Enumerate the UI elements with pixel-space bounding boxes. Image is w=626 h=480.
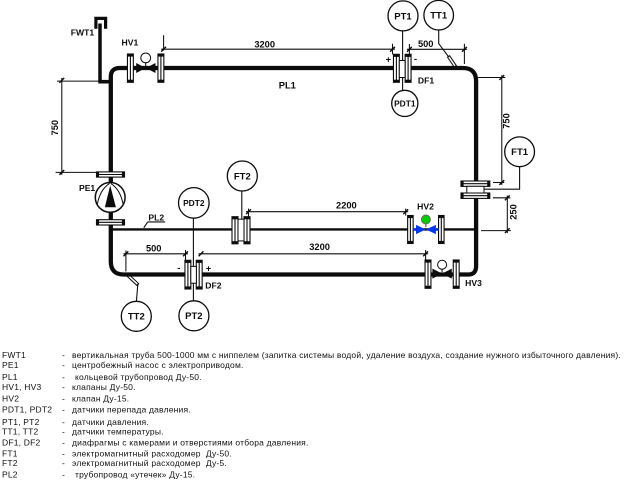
svg-text:-: - [62,458,65,468]
svg-text:PL1: PL1 [2,372,18,382]
dim 3200 top ext left [163,35,165,50]
svg-text:-: - [177,263,180,273]
valve HV2 actuator green circle [421,215,430,224]
legend row HV2 [2,393,129,403]
dim 250 ext top [493,197,510,199]
pump PE1 side arcs [97,183,123,204]
valve HV2 left flange [408,216,414,244]
diaphragm DF2 left flange [185,260,191,289]
sensor circle TT2 [121,301,151,331]
diaphragm DF1 chamber body [399,61,405,78]
valve HV1 actuator stem [145,63,147,67]
svg-text:PT1: PT1 [394,11,412,22]
node PDT1 stem [402,77,404,90]
valve HV1 left flange [127,54,133,82]
svg-text:TT1, TT2: TT1, TT2 [2,427,38,437]
svg-text:DF1: DF1 [418,75,434,85]
valve HV2 blue stubs [413,228,438,231]
svg-text:-: - [62,405,65,415]
dim 750 right ext top [478,77,506,79]
valve HV2 body blue [416,225,436,234]
svg-text:+: + [386,55,392,65]
pump PE1 impeller triangle [105,185,116,207]
svg-text:-: - [62,360,65,370]
svg-text:датчики перепада давления.: датчики перепада давления. [72,405,191,415]
svg-text:PT1, PT2: PT1, PT2 [2,417,40,427]
svg-text:-: - [414,54,417,64]
svg-text:+: + [206,263,212,273]
valve HV3 body [432,269,451,279]
svg-text:-: - [62,417,65,427]
flowmeter FT2 right flange [244,217,250,244]
svg-text:3200: 3200 [309,242,330,252]
sensor circle TT1 [424,0,454,30]
dim 500 top line [407,48,467,50]
thermowell probe TT1 [448,56,455,67]
svg-text:2200: 2200 [336,201,357,211]
svg-text:трубопровод «утечек» Ду-15.: трубопровод «утечек» Ду-15. [75,469,195,479]
sensor circle PDT1 [392,90,418,116]
svg-text:FT1: FT1 [2,448,18,458]
valve HV1 right flange [158,54,164,82]
node TT2 leader [136,284,137,301]
sensor circle PT1 [388,1,418,31]
svg-text:FWT1: FWT1 [71,28,95,38]
dim 500 top ext right [463,44,465,64]
svg-text:250: 250 [509,204,519,220]
dim 750 left ext bottom [56,171,97,173]
flowmeter FT1 bottom flange [461,193,490,198]
svg-text:HV2: HV2 [2,393,19,403]
svg-text:PL2: PL2 [148,213,164,223]
diaphragm DF1 left flange [393,54,399,82]
legend row DF1 DF2 [2,438,309,448]
legend row FWT1 [2,350,621,360]
node FT1 leader [484,167,520,189]
node PT2 stem [192,283,194,301]
dim 3200 top ext right [392,44,394,55]
svg-text:PL2: PL2 [2,469,18,479]
flowmeter FT1 top flange [461,181,490,186]
legend row PE1 [2,360,244,370]
pump PE1 bottom flange [97,220,125,225]
svg-text:PDT2: PDT2 [183,198,205,208]
pump PE1 top flange [97,172,125,177]
svg-text:750: 750 [50,120,60,136]
dim 750 left line [61,78,63,175]
dim 250 line [506,196,508,234]
legend row FT1 [2,448,232,458]
tube FWT1 jog to main pipe [98,80,111,84]
svg-text:PDT1: PDT1 [394,98,416,108]
valve HV3 actuator stem [441,269,443,272]
svg-text:HV1, HV3: HV1, HV3 [2,382,41,392]
instrument stems layer [136,30,519,302]
svg-text:DF2: DF2 [205,280,221,290]
svg-text:HV1: HV1 [122,37,139,47]
sensor circle PT2 [179,301,209,331]
svg-text:PE1: PE1 [79,183,95,193]
dimension lines layer [56,35,511,271]
dim 500 bottom line [123,253,188,255]
dim 500 bottom ext right [185,250,187,260]
legend row PL1 [2,372,202,382]
svg-text:FWT1: FWT1 [2,350,26,360]
vertical tube FWT1 pipe [98,24,102,82]
svg-text:PDT1, PDT2: PDT1, PDT2 [2,405,52,415]
svg-text:кольцевой трубопровод Ду-50.: кольцевой трубопровод Ду-50. [75,372,202,382]
label PL2 with underline and leader [144,213,165,228]
valve HV3 left flange [425,260,431,288]
svg-text:-: - [62,350,65,360]
svg-text:FT2: FT2 [2,458,18,468]
legend row HV1 HV3 [2,382,136,392]
valve HV1 actuator circle [141,53,151,63]
svg-text:FT1: FT1 [511,147,529,158]
svg-text:клапан Ду-15.: клапан Ду-15. [72,393,129,403]
svg-text:PL1: PL1 [279,79,296,90]
svg-text:-: - [62,427,65,437]
dim 500 bottom ext left [125,250,127,271]
svg-text:PT2: PT2 [185,311,202,322]
svg-text:3200: 3200 [254,39,275,49]
pump PE1 circle [95,183,125,213]
svg-text:-: - [62,438,65,448]
dim 250 ext bottom [481,230,511,232]
node PDT2 stem [192,218,194,266]
legend row PDT1 PDT2 [2,405,191,415]
legend row PT1 PT2 [2,417,149,427]
thermowell probe TT2 [126,274,138,285]
svg-text:500: 500 [418,39,434,49]
dim 3200 bottom line [199,253,429,255]
svg-text:-: - [62,393,65,403]
svg-text:750: 750 [502,113,512,129]
svg-text:датчики температуры.: датчики температуры. [72,427,164,437]
svg-text:электромагнитный расходомер Д: электромагнитный расходомер Ду-50. [72,448,232,458]
legend row TT1 TT2 [2,427,164,437]
diaphragm DF2 right flange [196,260,202,289]
svg-text:DF1, DF2: DF1, DF2 [2,438,41,448]
svg-text:центробежный насос с электропр: центробежный насос с электроприводом. [72,360,244,370]
dim 2200 ext left [248,209,250,217]
dim 2200 ext right [405,209,407,216]
valve HV2 actuator stem [425,224,427,227]
node FT2 stem [241,191,243,220]
sensor circle PDT2 [179,188,210,219]
svg-text:TT1: TT1 [430,11,448,22]
svg-text:TT2: TT2 [128,312,145,323]
dim 2200 line [246,211,408,213]
svg-text:клапаны Ду-50.: клапаны Ду-50. [72,382,136,392]
legend row PL2 [2,469,195,479]
legend row FT2 [2,458,227,468]
svg-text:500: 500 [146,243,162,253]
sensor circle FT2 [227,161,257,191]
svg-text:-: - [62,372,65,382]
node TT1 leader [439,30,451,59]
svg-text:датчики давления.: датчики давления. [72,417,149,427]
valve HV3 right flange [453,260,459,288]
svg-text:FT2: FT2 [234,171,251,182]
svg-text:-: - [62,448,65,458]
dim 750 right ext bottom [493,182,504,184]
flowmeter FT2 left flange [232,217,238,244]
dim 3200 bottom ext right [425,250,427,260]
diaphragm DF1 right flange [405,54,411,82]
sensor circle FT1 [505,137,535,167]
main ring pipe PL1 loop [111,68,476,275]
dim 3200 top line [161,48,395,50]
svg-text:вертикальная труба 500-1000 мм: вертикальная труба 500-1000 мм с ниппеле… [72,350,621,360]
svg-text:-: - [62,469,65,479]
valve HV3 actuator circle [438,260,447,269]
dim 750 left ext top [57,80,98,82]
svg-text:электромагнитный расходомер Д: электромагнитный расходомер Ду-5. [72,458,227,468]
svg-text:диафрагмы с камерами и отверст: диафрагмы с камерами и отверстиями отбор… [72,438,309,448]
dimension tick marks [59,47,509,256]
svg-text:HV2: HV2 [417,201,434,211]
valve HV2 right flange [439,216,445,244]
flowmeter FT2 body [238,219,244,241]
dim 750 right line [501,75,503,185]
valve HV1 body [136,63,155,73]
flowmeter FT1 body [467,186,484,193]
svg-text:-: - [62,382,65,392]
diaphragm DF2 chamber body [191,266,197,283]
node PT1 stem [402,31,404,61]
svg-text:PE1: PE1 [2,360,19,370]
tube FWT1 nipple cap [96,18,106,28]
svg-text:HV3: HV3 [465,278,482,288]
leak pipe PL2 [111,228,476,230]
